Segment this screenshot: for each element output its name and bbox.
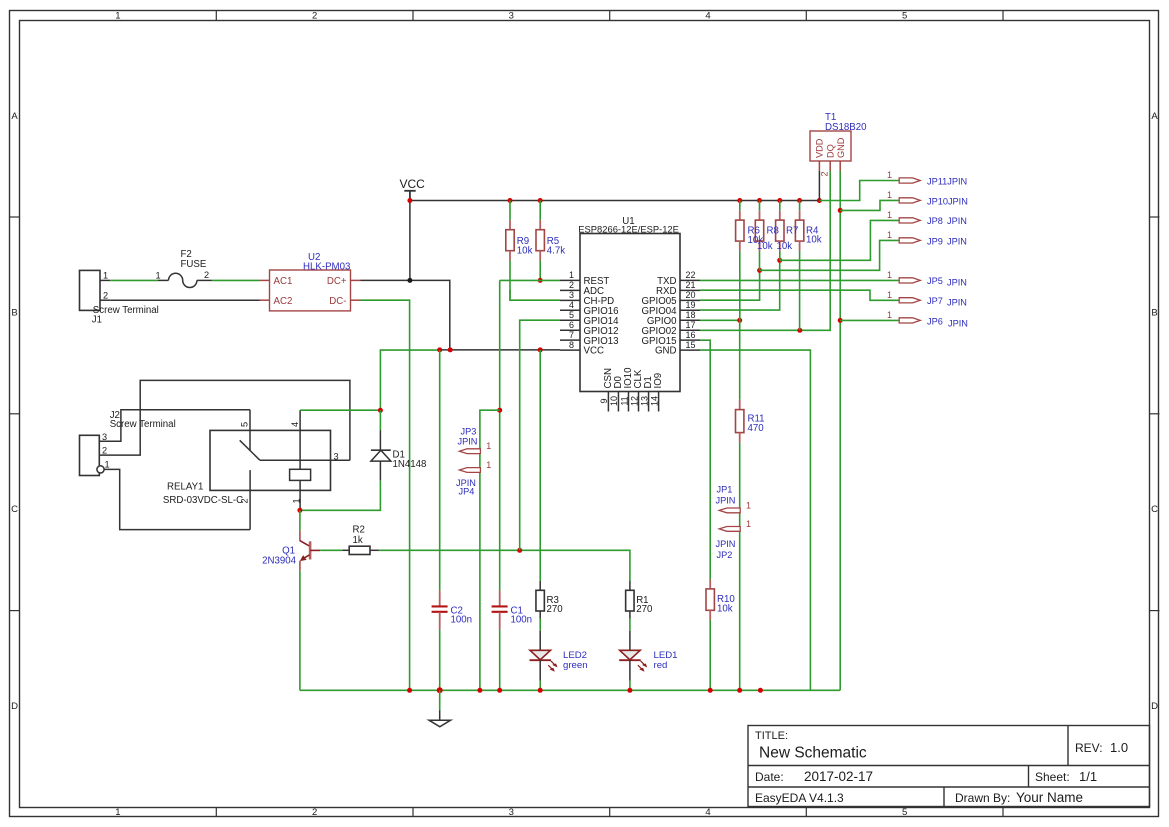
junction base line / GPIO14 <box>517 548 522 553</box>
J2 pin 2 <box>102 446 107 456</box>
svg-text:3: 3 <box>509 807 514 818</box>
svg-text:7: 7 <box>569 330 574 340</box>
LED1 labels <box>654 650 678 671</box>
junction VCC rail dots <box>407 198 822 203</box>
wire R9 to CH-PD <box>510 290 560 300</box>
connector JP6 <box>887 310 920 323</box>
wire R3 to LED2 <box>539 619 541 631</box>
wire GPIO15 down to R10 <box>700 340 710 579</box>
F2 pin 1 number <box>156 271 161 281</box>
svg-text:2: 2 <box>820 171 830 176</box>
title block text Drawn By <box>955 790 1083 805</box>
junction T1 GND / JP6 <box>838 318 843 323</box>
IC U1 body <box>580 234 680 392</box>
junction T1 GND / JP10 <box>838 208 843 213</box>
svg-text:18: 18 <box>686 310 696 320</box>
svg-text:4: 4 <box>569 300 574 310</box>
U2 label <box>303 252 350 273</box>
wire relay/D1 node up to VCC row <box>380 350 439 410</box>
U2 pin AC1 <box>260 276 293 287</box>
svg-text:1k: 1k <box>353 535 363 546</box>
connector JP10 <box>887 190 920 203</box>
fuse F2 symbol <box>158 273 212 287</box>
U1 label <box>578 216 679 235</box>
U2 pin AC2 <box>260 296 293 307</box>
connector JP3 <box>459 441 491 454</box>
svg-text:2: 2 <box>102 446 107 456</box>
svg-text:R7: R7 <box>786 226 798 237</box>
svg-text:JP3: JP3 <box>461 427 477 437</box>
R6 labels <box>748 226 764 247</box>
wire REST down to C1 <box>499 280 501 590</box>
svg-text:15: 15 <box>686 340 696 350</box>
JP11 label <box>927 176 967 186</box>
wire VCC row branch down to R3 <box>539 350 541 581</box>
svg-text:4: 4 <box>705 807 710 818</box>
svg-text:1: 1 <box>486 441 491 451</box>
svg-text:2: 2 <box>204 270 209 280</box>
svg-text:REV:: REV: <box>1075 741 1103 755</box>
svg-text:Sheet:: Sheet: <box>1035 770 1070 784</box>
wire VCC rail <box>410 200 820 202</box>
resistor R4 <box>795 201 803 331</box>
svg-text:10k: 10k <box>806 235 822 246</box>
svg-text:J1: J1 <box>92 315 102 326</box>
svg-text:1: 1 <box>292 498 302 503</box>
wire J2.3 to relay pin5 <box>99 410 250 442</box>
svg-text:2: 2 <box>103 290 108 300</box>
resistor R6 <box>736 201 744 321</box>
svg-text:red: red <box>654 660 668 671</box>
F2 pin 2 number <box>204 270 209 280</box>
svg-text:3: 3 <box>509 11 514 22</box>
svg-text:VDD: VDD <box>815 138 825 158</box>
JP2 labels <box>716 539 736 560</box>
relay pin 4 line <box>290 410 300 469</box>
svg-text:10k: 10k <box>717 604 733 615</box>
ground symbol <box>429 690 451 727</box>
svg-text:B: B <box>11 307 17 318</box>
module U2 body <box>270 270 351 311</box>
wire collector <box>299 510 301 530</box>
JP10 label <box>927 196 968 206</box>
resistor R10 <box>706 579 714 620</box>
svg-text:JP8: JP8 <box>927 216 943 226</box>
connector J1 body <box>80 270 101 310</box>
relay pin 5 stub <box>239 410 250 451</box>
J1 label Screw Terminal <box>93 305 159 316</box>
F2 label <box>181 249 207 270</box>
title block text Sheet <box>1035 769 1097 784</box>
junction ground rail dots <box>407 687 763 693</box>
junction REST / JP3 branch <box>497 408 502 413</box>
svg-text:1: 1 <box>103 271 108 281</box>
wire JP6 to GND vertical <box>840 319 899 321</box>
wire TXD to JP5 <box>700 279 899 281</box>
svg-text:4.7k: 4.7k <box>547 246 565 257</box>
wire JP3/JP4 branch <box>480 410 500 690</box>
wire T1 GND down to ground rail <box>839 171 841 690</box>
connector JP8 <box>887 210 920 223</box>
svg-text:1: 1 <box>887 170 892 180</box>
JP3 labels <box>458 427 478 447</box>
svg-text:RELAY1: RELAY1 <box>167 482 203 493</box>
wire VCC row to U1 pin8 <box>440 349 560 351</box>
svg-text:JPIN: JPIN <box>458 437 478 447</box>
svg-text:21: 21 <box>686 280 696 290</box>
connector JP5 <box>887 270 920 283</box>
svg-text:5: 5 <box>902 807 907 818</box>
J2 label <box>110 410 176 430</box>
wire JP10 to T1 GND <box>840 200 899 210</box>
svg-text:Your Name: Your Name <box>1016 790 1083 805</box>
svg-text:GND: GND <box>836 137 846 158</box>
svg-text:D: D <box>1151 701 1158 712</box>
R11 labels <box>748 414 765 435</box>
C2 labels <box>451 606 473 626</box>
resistor R11 <box>736 400 744 443</box>
JP6 label <box>927 316 968 328</box>
svg-text:470: 470 <box>748 423 765 434</box>
J1 pin 2 stub <box>100 290 110 300</box>
wire GPIO02 line <box>700 171 830 330</box>
wire VCC row down to C2 <box>439 350 441 590</box>
svg-text:GND: GND <box>655 346 677 357</box>
svg-text:JPIN: JPIN <box>947 236 967 246</box>
wire U2 DC- down to ground rail <box>361 300 410 690</box>
capacitor C1 <box>492 591 508 630</box>
svg-text:1: 1 <box>887 310 892 320</box>
svg-text:DC-: DC- <box>329 296 346 307</box>
U1 bottom pins 9-14 <box>599 367 664 412</box>
J1 label J1 <box>92 315 102 326</box>
wire ground rail <box>300 689 840 691</box>
svg-text:100n: 100n <box>511 615 533 626</box>
transistor Q1 <box>300 530 321 570</box>
svg-text:VCC: VCC <box>584 346 604 357</box>
svg-text:JP11JPIN: JP11JPIN <box>927 176 967 186</box>
R5 labels <box>547 236 565 257</box>
R9 labels <box>517 236 533 257</box>
title block <box>748 726 1150 807</box>
svg-text:D: D <box>11 701 18 712</box>
wire GPIO04 up to R7 node <box>700 260 780 310</box>
R4 labels <box>806 226 822 246</box>
R10 labels <box>717 594 735 615</box>
U1 left pins 1-8 <box>560 270 619 357</box>
svg-text:5: 5 <box>569 310 574 320</box>
svg-text:C: C <box>1151 504 1158 515</box>
LED2 labels <box>563 650 588 671</box>
svg-text:JP10JPIN: JP10JPIN <box>927 196 968 206</box>
svg-text:1: 1 <box>156 271 161 281</box>
T1 label <box>825 112 867 133</box>
svg-text:AC1: AC1 <box>274 276 293 287</box>
title block text EasyEDA <box>755 791 844 805</box>
svg-text:4: 4 <box>290 422 300 427</box>
svg-text:10: 10 <box>609 396 619 406</box>
svg-text:22: 22 <box>686 270 696 280</box>
svg-text:1: 1 <box>887 210 892 220</box>
svg-text:2017-02-17: 2017-02-17 <box>804 769 873 784</box>
svg-text:Screw Terminal: Screw Terminal <box>93 305 159 316</box>
title block text TITLE: <box>755 730 788 742</box>
svg-text:1.0: 1.0 <box>1110 740 1128 755</box>
svg-text:2: 2 <box>569 280 574 290</box>
svg-text:A: A <box>11 111 18 122</box>
junction GPIO02 / R4 <box>797 328 802 333</box>
wire J2.2 to relay pin3 <box>99 380 350 460</box>
svg-text:TITLE:: TITLE: <box>755 730 788 742</box>
wire R8 node to JP9 <box>760 240 900 270</box>
svg-text:11: 11 <box>619 396 629 405</box>
resistor R9 <box>506 201 514 301</box>
svg-text:IO9: IO9 <box>653 373 664 389</box>
svg-text:ESP8266-12E/ESP-12E: ESP8266-12E/ESP-12E <box>578 224 679 235</box>
LED LED2 <box>530 631 558 691</box>
svg-text:100n: 100n <box>451 615 473 626</box>
svg-text:12: 12 <box>629 396 639 406</box>
svg-text:AC2: AC2 <box>274 296 293 307</box>
svg-text:JP7: JP7 <box>927 296 943 306</box>
diode D1 symbol <box>371 430 391 481</box>
T1 pin DQ <box>825 144 835 171</box>
svg-text:JP9: JP9 <box>927 236 943 246</box>
T1 pin GND <box>836 137 846 171</box>
wire R2 to R1 and GPIO14 node <box>379 550 630 581</box>
wire GPIO0 to R6 node <box>700 319 740 321</box>
svg-text:3: 3 <box>334 451 339 461</box>
capacitor C2 <box>432 591 448 630</box>
svg-text:1: 1 <box>887 230 892 240</box>
svg-text:JP4: JP4 <box>459 487 475 497</box>
wire relay pin4 to D1 <box>300 409 380 411</box>
wire F2 to U2 AC1 <box>212 279 260 281</box>
svg-text:2N3904: 2N3904 <box>262 556 297 567</box>
svg-text:FUSE: FUSE <box>181 259 207 270</box>
svg-text:1: 1 <box>887 190 892 200</box>
D1 labels <box>393 449 427 470</box>
svg-text:DS18B20: DS18B20 <box>825 122 867 133</box>
wire C1 to ground rail <box>499 630 501 690</box>
wire REST line <box>500 279 560 281</box>
relay coil <box>290 469 311 480</box>
relay RELAY1 body <box>210 430 331 490</box>
wire D1 top <box>379 410 381 430</box>
wire J1 pin2 to U2 AC2 <box>110 299 259 301</box>
title block text REV <box>1075 740 1128 755</box>
connector JP2 <box>719 519 751 531</box>
U2 pin DC+ <box>327 276 361 287</box>
T1 pin VDD <box>815 138 825 171</box>
svg-text:2: 2 <box>312 807 317 818</box>
svg-text:1: 1 <box>887 270 892 280</box>
T1 pin number 2 <box>820 171 830 176</box>
J2 pin 3 <box>102 432 107 442</box>
J1 pin 1 stub <box>100 271 110 281</box>
svg-text:1: 1 <box>115 807 120 818</box>
svg-text:JP2: JP2 <box>717 550 733 560</box>
R1 labels <box>636 595 653 615</box>
relay labels <box>163 482 243 507</box>
LED LED1 <box>619 631 647 691</box>
R7 labels <box>777 226 799 253</box>
svg-text:1: 1 <box>115 11 120 22</box>
svg-text:1: 1 <box>746 500 751 510</box>
svg-text:19: 19 <box>686 300 696 310</box>
svg-text:8: 8 <box>569 340 574 350</box>
junction R5 / REST <box>538 278 543 283</box>
junction VCC row / R3 branch <box>538 347 543 352</box>
relay pin 3 contact <box>260 451 350 461</box>
R8 labels <box>757 226 779 253</box>
svg-text:DC+: DC+ <box>327 276 347 287</box>
junction GPIO0 / R6 / R11 <box>737 318 742 323</box>
svg-text:R8: R8 <box>767 226 779 237</box>
wire GPIO05 up to R8 node <box>700 270 760 300</box>
wire R1 to LED1 <box>629 619 631 631</box>
svg-text:13: 13 <box>639 396 649 406</box>
U2 pin DC- <box>329 296 360 307</box>
VCC power symbol <box>400 177 426 201</box>
svg-text:DQ: DQ <box>825 144 835 158</box>
svg-text:Screw Terminal: Screw Terminal <box>110 419 176 430</box>
wire J2.1 to relay pin2 <box>104 469 250 529</box>
JP7 label <box>927 296 967 307</box>
svg-text:1: 1 <box>887 290 892 300</box>
wire VDD to VCC rail <box>818 171 820 201</box>
svg-text:JPIN: JPIN <box>716 496 736 506</box>
svg-text:JPIN: JPIN <box>947 216 967 226</box>
svg-text:2: 2 <box>312 11 317 22</box>
svg-text:1: 1 <box>569 270 574 280</box>
wire VCC to JP11 <box>819 181 899 201</box>
JP1 labels <box>716 485 736 506</box>
wire R7 node to JP8 <box>780 220 900 260</box>
R2 labels <box>353 525 365 547</box>
resistor R3 <box>536 581 544 619</box>
wire C2 to ground rail <box>439 630 441 690</box>
svg-text:5: 5 <box>902 11 907 22</box>
connector JP11 <box>887 170 920 183</box>
wire J1 pin1 to F2 <box>110 279 158 281</box>
svg-text:4: 4 <box>705 11 710 22</box>
svg-text:JPIN: JPIN <box>948 319 968 329</box>
svg-text:270: 270 <box>636 604 653 615</box>
title block text Date <box>755 769 873 784</box>
svg-text:VCC: VCC <box>400 177 426 191</box>
svg-text:SRD-03VDC-SL-C: SRD-03VDC-SL-C <box>163 495 243 506</box>
wire Q1 base to R2 <box>320 549 342 551</box>
svg-text:20: 20 <box>686 290 696 300</box>
title block text New Schematic <box>759 745 867 762</box>
svg-text:JPIN: JPIN <box>947 298 967 308</box>
relay pin 1 line <box>292 480 302 510</box>
J2 pin 1 <box>97 460 110 473</box>
JP5 label <box>927 276 967 287</box>
JP4 labels <box>456 478 476 497</box>
svg-text:14: 14 <box>649 396 659 406</box>
junction relay1/D1/Q1 collector <box>297 508 302 513</box>
svg-text:3: 3 <box>102 432 107 442</box>
svg-text:Date:: Date: <box>755 770 784 784</box>
wire GPIO14 to base line <box>520 320 560 550</box>
svg-text:R2: R2 <box>353 525 365 536</box>
svg-text:6: 6 <box>569 320 574 330</box>
wire RXD to JP7 <box>700 290 899 300</box>
resistor R1 <box>626 581 634 619</box>
svg-text:C: C <box>11 504 18 515</box>
svg-text:17: 17 <box>686 320 696 330</box>
wire U2 DC+ to VCC node <box>361 280 450 350</box>
connector J2 body <box>80 435 100 475</box>
Q1 labels <box>262 546 297 567</box>
connector JP7 <box>887 290 920 303</box>
C1 labels <box>511 606 533 626</box>
junction GPIO04 / R7 <box>777 258 782 263</box>
svg-text:A: A <box>1151 111 1158 122</box>
svg-text:9: 9 <box>599 398 609 403</box>
wire emitter to ground rail <box>299 571 301 691</box>
wire GND15 down to rail <box>700 350 810 690</box>
svg-text:1/1: 1/1 <box>1079 769 1097 784</box>
wire R6 node down to R11 <box>739 320 741 400</box>
svg-text:JPIN: JPIN <box>947 278 967 288</box>
svg-text:1: 1 <box>746 519 751 529</box>
svg-text:JP5: JP5 <box>927 276 943 286</box>
svg-text:1N4148: 1N4148 <box>393 459 427 470</box>
svg-text:New Schematic: New Schematic <box>759 745 867 762</box>
svg-text:JPIN: JPIN <box>716 539 736 549</box>
svg-text:10k: 10k <box>777 241 793 252</box>
junction VCC stem / DC+ <box>407 278 412 283</box>
junction GPIO05 / R8 <box>757 268 762 273</box>
resistor R5 <box>536 201 544 281</box>
connector JP1 <box>719 500 751 512</box>
connector JP4 <box>459 460 491 472</box>
connector JP9 <box>887 230 920 243</box>
svg-text:JP6: JP6 <box>927 316 943 326</box>
junction relay4/D1/VCC <box>378 408 383 413</box>
wire R11 to ground rail with JP1 JP2 <box>739 442 741 690</box>
relay switch arm <box>240 440 260 460</box>
svg-text:green: green <box>563 660 588 671</box>
U1 right pins 22-15 <box>642 270 701 357</box>
sensor T1 body <box>810 131 851 161</box>
wire D1 bottom to relay pin1 node <box>300 481 381 511</box>
svg-text:HLK-PM03: HLK-PM03 <box>303 262 350 273</box>
svg-text:1: 1 <box>105 460 110 470</box>
wire R10 to ground rail <box>709 620 711 690</box>
svg-text:3: 3 <box>569 290 574 300</box>
relay pin 2 line <box>239 470 250 529</box>
resistor R2 <box>342 546 379 554</box>
svg-text:B: B <box>1151 307 1157 318</box>
JP8 label <box>927 216 967 226</box>
svg-text:1: 1 <box>486 460 491 470</box>
resistor R8 <box>755 201 763 271</box>
JP9 label <box>927 236 967 246</box>
svg-text:Drawn By:: Drawn By: <box>955 791 1010 805</box>
junction VCC row dots <box>437 347 453 352</box>
svg-text:270: 270 <box>547 604 564 615</box>
R3 labels <box>547 595 564 615</box>
svg-text:EasyEDA V4.1.3: EasyEDA V4.1.3 <box>755 791 844 805</box>
svg-text:5: 5 <box>239 422 249 427</box>
svg-text:16: 16 <box>686 330 696 340</box>
resistor R7 <box>776 201 784 261</box>
svg-text:10k: 10k <box>517 246 533 257</box>
